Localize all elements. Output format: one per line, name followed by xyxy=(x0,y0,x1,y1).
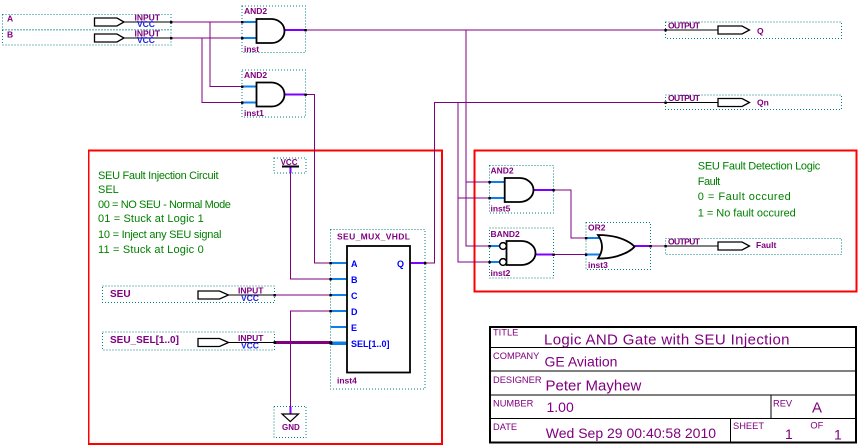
svg-text:VCC: VCC xyxy=(137,35,155,45)
svg-text:SHEET: SHEET xyxy=(733,421,764,431)
svg-text:inst1: inst1 xyxy=(244,108,264,118)
svg-text:Fault: Fault xyxy=(698,176,720,188)
svg-text:inst4: inst4 xyxy=(337,376,357,386)
svg-text:1 = No fault occured: 1 = No fault occured xyxy=(698,207,796,219)
svg-text:VCC: VCC xyxy=(281,158,298,167)
svg-text:AND2: AND2 xyxy=(491,166,514,176)
svg-text:B: B xyxy=(7,30,13,40)
svg-text:SEU: SEU xyxy=(110,289,131,300)
svg-text:A: A xyxy=(7,14,13,24)
svg-text:Wed Sep 29 00:40:58 2010: Wed Sep 29 00:40:58 2010 xyxy=(546,425,716,441)
svg-text:OUTPUT: OUTPUT xyxy=(668,237,701,247)
svg-text:AND2: AND2 xyxy=(244,70,267,80)
svg-text:1.00: 1.00 xyxy=(547,399,574,415)
svg-text:SEU_MUX_VHDL: SEU_MUX_VHDL xyxy=(337,232,410,242)
svg-text:10 = Inject any SEU signal: 10 = Inject any SEU signal xyxy=(98,229,222,241)
svg-text:0 = Fault occured: 0 = Fault occured xyxy=(698,191,791,203)
svg-text:SEL: SEL xyxy=(98,184,119,196)
svg-text:OUTPUT: OUTPUT xyxy=(668,21,701,31)
svg-text:inst3: inst3 xyxy=(588,260,608,270)
svg-text:Q: Q xyxy=(397,259,404,269)
svg-text:COMPANY: COMPANY xyxy=(493,351,539,361)
svg-text:VCC: VCC xyxy=(241,293,259,303)
svg-text:11 = Stuck at Logic 0: 11 = Stuck at Logic 0 xyxy=(98,244,204,256)
svg-text:C: C xyxy=(351,291,358,301)
svg-text:1: 1 xyxy=(785,426,793,442)
svg-text:REV: REV xyxy=(773,399,793,409)
svg-text:B: B xyxy=(351,275,358,285)
svg-text:AND2: AND2 xyxy=(244,6,267,16)
svg-text:00 = NO SEU - Normal Mode: 00 = NO SEU - Normal Mode xyxy=(98,199,231,211)
svg-text:inst: inst xyxy=(244,44,259,54)
svg-text:D: D xyxy=(351,307,358,317)
svg-text:Q: Q xyxy=(757,26,764,36)
svg-text:VCC: VCC xyxy=(241,341,259,351)
svg-text:DESIGNER: DESIGNER xyxy=(493,375,542,385)
svg-text:A: A xyxy=(351,259,358,269)
svg-text:GND: GND xyxy=(282,423,300,432)
svg-text:SEU Fault Detection Logic: SEU Fault Detection Logic xyxy=(698,161,821,173)
svg-text:Fault: Fault xyxy=(756,240,776,250)
svg-text:1: 1 xyxy=(834,427,842,443)
svg-text:GE Aviation: GE Aviation xyxy=(545,354,618,370)
svg-text:SEU_SEL[1..0]: SEU_SEL[1..0] xyxy=(110,335,179,346)
svg-text:BAND2: BAND2 xyxy=(491,229,521,239)
svg-text:inst5: inst5 xyxy=(491,204,511,214)
svg-text:Peter Mayhew: Peter Mayhew xyxy=(546,378,642,395)
svg-text:A: A xyxy=(812,399,822,416)
svg-text:Qn: Qn xyxy=(757,98,769,108)
svg-text:SEU Fault Injection Circuit: SEU Fault Injection Circuit xyxy=(98,170,219,182)
svg-text:DATE: DATE xyxy=(493,422,517,432)
svg-text:SEL[1..0]: SEL[1..0] xyxy=(351,339,390,349)
svg-text:Logic AND Gate with SEU Inject: Logic AND Gate with SEU Injection xyxy=(544,331,790,348)
svg-text:OF: OF xyxy=(810,421,823,431)
svg-text:OR2: OR2 xyxy=(588,223,606,233)
svg-text:01 = Stuck at Logic 1: 01 = Stuck at Logic 1 xyxy=(98,213,204,225)
svg-text:VCC: VCC xyxy=(137,19,155,29)
svg-text:inst2: inst2 xyxy=(491,268,511,278)
svg-text:TITLE: TITLE xyxy=(493,327,518,337)
svg-text:E: E xyxy=(351,323,357,333)
svg-text:NUMBER: NUMBER xyxy=(493,399,534,409)
svg-text:OUTPUT: OUTPUT xyxy=(668,93,701,103)
